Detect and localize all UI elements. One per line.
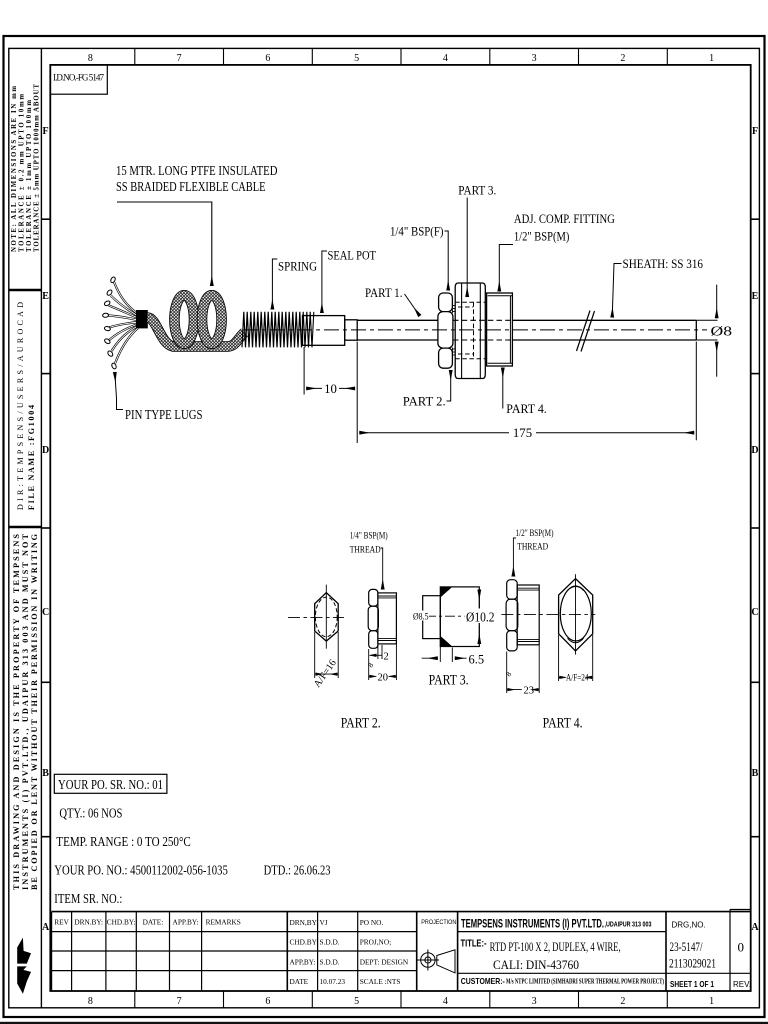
- svg-text:BE COPIED OR LENT WITHOUT THEI: BE COPIED OR LENT WITHOUT THEIR PERMISSI…: [30, 533, 39, 890]
- break marks on tube: [577, 311, 595, 352]
- svg-text:THREAD: THREAD: [517, 543, 548, 553]
- svg-text:8: 8: [88, 996, 93, 1007]
- coiled braided cable: [148, 295, 245, 346]
- left strip section dividers: [9, 290, 42, 527]
- svg-text:CUSTOMER:-: CUSTOMER:-: [461, 977, 505, 986]
- svg-text:B: B: [752, 768, 759, 779]
- property notice text (rotated): [12, 533, 39, 890]
- svg-text:2113029021: 2113029021: [669, 956, 716, 971]
- svg-text:E: E: [42, 291, 49, 302]
- svg-text:SCALE :NTS: SCALE :NTS: [360, 977, 401, 986]
- svg-text:7: 7: [177, 996, 182, 1007]
- bottom column numbers: [88, 996, 714, 1007]
- PART 4 side view threaded cylinder: [517, 585, 539, 645]
- svg-text:DRN,BY:: DRN,BY:: [290, 918, 319, 927]
- svg-text:CALI: DIN-43760: CALI: DIN-43760: [493, 957, 579, 972]
- svg-text:SEAL POT: SEAL POT: [328, 249, 377, 263]
- PART 4 side view hex facets: [506, 580, 518, 651]
- svg-text:PART 2.: PART 2.: [341, 716, 381, 732]
- svg-text:PART 4.: PART 4.: [543, 716, 583, 732]
- seal pot: [303, 316, 358, 346]
- svg-text:ITEM SR. NO.:: ITEM SR. NO.:: [54, 892, 122, 907]
- svg-text:1/4" BSP(F): 1/4" BSP(F): [390, 225, 444, 239]
- pin type lugs wires: [102, 276, 138, 369]
- svg-text:SHEET 1 OF 1: SHEET 1 OF 1: [670, 980, 714, 989]
- svg-text:YOUR PO. NO.: 4500112002-056-1: YOUR PO. NO.: 4500112002-056-1035: [54, 864, 228, 879]
- svg-text:1/2" BSP(M): 1/2" BSP(M): [516, 528, 554, 539]
- svg-text:SPRING: SPRING: [278, 260, 317, 274]
- svg-text:A: A: [42, 922, 50, 933]
- bottom column ruler ticks: [135, 991, 668, 1008]
- svg-text:PROJECTION: PROJECTION: [421, 919, 456, 926]
- PART 3 chamfer triangles: [440, 587, 452, 598]
- sign-off labels and values: [290, 918, 409, 986]
- left note strip right edge: [40, 48, 42, 1007]
- dimension 10: [304, 342, 357, 444]
- svg-text:B: B: [42, 768, 49, 779]
- PART 4 A/F=24 dimension: [559, 635, 593, 681]
- svg-text:APP,BY:: APP,BY:: [290, 957, 316, 966]
- exposed thread between nuts: [452, 303, 456, 357]
- PART 3 dia 10.2 dimension: [465, 609, 496, 624]
- svg-text:PART 1.: PART 1.: [365, 286, 403, 300]
- svg-text:DTD.: 26.06.23: DTD.: 26.06.23: [264, 864, 331, 879]
- svg-text:3: 3: [532, 996, 537, 1007]
- centerline: [243, 329, 707, 331]
- svg-text:8: 8: [88, 53, 93, 64]
- svg-text:PO NO.: PO NO.: [360, 918, 384, 927]
- bottom scan edge line: [0, 1022, 768, 1024]
- svg-text:Ø8: Ø8: [711, 324, 733, 339]
- svg-text:S.D.D.: S.D.D.: [320, 938, 340, 947]
- your po sr no box: [54, 774, 167, 793]
- svg-text:TOLERANCE ± 1mm UPTO 100mm: TOLERANCE ± 1mm UPTO 100mm: [26, 100, 33, 252]
- order info text block: [54, 778, 330, 907]
- svg-text:10.07.23: 10.07.23: [320, 977, 346, 986]
- label SEAL POT with leader: [322, 251, 327, 313]
- svg-text:A/F=24: A/F=24: [566, 673, 589, 683]
- hidden tube through fittings: [453, 320, 512, 340]
- top column numbers: [88, 53, 714, 64]
- svg-text:F: F: [43, 126, 49, 137]
- PART 2 dimension 20: [369, 645, 397, 681]
- svg-text:2: 2: [620, 53, 625, 64]
- svg-text:4: 4: [443, 53, 448, 64]
- svg-text:A: A: [751, 922, 759, 933]
- svg-text:Ø10.2: Ø10.2: [466, 611, 495, 626]
- svg-text:10: 10: [324, 382, 337, 396]
- right row letters: [751, 126, 759, 933]
- sheath tube solid lines: [357, 320, 696, 340]
- svg-text:THREAD: THREAD: [350, 546, 381, 556]
- svg-text:SHEATH: SS 316: SHEATH: SS 316: [623, 257, 704, 271]
- svg-text:2: 2: [620, 996, 625, 1007]
- spring: [242, 312, 302, 348]
- label: PIN TYPE LUGS with leader: [115, 372, 117, 399]
- union nut PART 1: [455, 283, 485, 379]
- right row ruler ticks: [751, 219, 760, 837]
- svg-text:F: F: [752, 126, 758, 137]
- svg-text:VJ: VJ: [320, 918, 328, 927]
- svg-text:PART 2.: PART 2.: [403, 395, 446, 409]
- svg-text:TOLERANCE ± 5mm UPTO 1000mm AB: TOLERANCE ± 5mm UPTO 1000mm ABOUT: [34, 84, 41, 252]
- svg-text:23: 23: [524, 686, 535, 697]
- svg-text:6: 6: [265, 53, 270, 64]
- svg-text:E: E: [752, 291, 759, 302]
- PART 3 centerline: [426, 615, 483, 617]
- svg-text:ADJ. COMP. FITTING: ADJ. COMP. FITTING: [514, 212, 615, 226]
- top column ruler ticks: [135, 48, 668, 65]
- id number box: [50, 65, 107, 94]
- svg-text:TEMPSENS INSTRUMENTS (I) PVT.L: TEMPSENS INSTRUMENTS (I) PVT.LTD.: [461, 918, 604, 931]
- PART 3 dia 8.5 label: [413, 611, 430, 621]
- dimension 175: [359, 342, 696, 441]
- svg-text:NOTE: ALL DIMENSIONS ARE IN mm: NOTE: ALL DIMENSIONS ARE IN mm: [11, 86, 18, 252]
- adj fitting body PART 4: [487, 293, 513, 366]
- svg-text:DRG,NO.: DRG,NO.: [672, 921, 706, 930]
- svg-text:23-5147/: 23-5147/: [670, 939, 703, 954]
- svg-text:DIR:TEMPSENS/USERS/AUROCAD: DIR:TEMPSENS/USERS/AUROCAD: [16, 302, 25, 510]
- svg-text:PART 4.: PART 4.: [506, 402, 547, 416]
- revision table header labels: [54, 918, 241, 927]
- svg-text:Ø8.5: Ø8.5: [413, 613, 429, 623]
- svg-text:YOUR PO. SR. NO.: 01: YOUR PO. SR. NO.: 01: [58, 778, 163, 793]
- PART 2 side view threaded cylinder: [378, 593, 397, 644]
- svg-text:DATE: DATE: [290, 977, 309, 986]
- svg-text:1/4" BSP(M): 1/4" BSP(M): [350, 531, 388, 542]
- svg-text:2: 2: [384, 652, 389, 663]
- PART 3 dimension 6.5: [422, 640, 467, 663]
- svg-text:6: 6: [265, 996, 270, 1007]
- svg-text:REV.: REV.: [733, 980, 751, 989]
- svg-text:1/2" BSP(M): 1/2" BSP(M): [514, 230, 570, 244]
- svg-text:S.D.D.: S.D.D.: [320, 957, 340, 966]
- dimension diameter 8: [696, 285, 717, 377]
- svg-text:DATE:: DATE:: [143, 918, 164, 927]
- leader for cable label: [117, 202, 212, 286]
- svg-text:PART 3.: PART 3.: [458, 184, 496, 198]
- svg-text:DRN.BY:: DRN.BY:: [74, 918, 103, 927]
- svg-text:M/s NTPC LIMITED (SIMHADRI SUP: M/s NTPC LIMITED (SIMHADRI SUPER THERMAL…: [506, 977, 664, 986]
- hidden thread lines in nut: [455, 302, 485, 359]
- hex nut assembly PART 2 (small nut): [438, 293, 453, 368]
- label: 15 MTR. LONG PTFE INSULATED SS BRAIDED FLEXIBLE CABLE: [116, 163, 278, 194]
- PART 3 ferrule body: [423, 587, 480, 647]
- label SPRING with leader: [272, 259, 277, 310]
- svg-text:5: 5: [354, 53, 359, 64]
- svg-text:3: 3: [532, 53, 537, 64]
- svg-text:QTY.: 06 NOS: QTY.: 06 NOS: [59, 807, 122, 822]
- dir file name text (rotated): [16, 302, 36, 510]
- svg-text:I.D.NO.-FG 5147: I.D.NO.-FG 5147: [53, 73, 105, 83]
- svg-text:5: 5: [354, 996, 359, 1007]
- tempsens logo arrow: [17, 938, 31, 994]
- svg-text:7: 7: [177, 53, 182, 64]
- svg-text:PIN TYPE LUGS: PIN TYPE LUGS: [125, 407, 203, 422]
- PART 4 centerline: [501, 613, 595, 615]
- svg-text:C: C: [751, 607, 758, 618]
- PART 2 front view hexagon: [288, 585, 344, 649]
- svg-text:D: D: [751, 445, 758, 456]
- svg-text:TITLE:-: TITLE:-: [461, 938, 487, 950]
- svg-text:TEMP. RANGE : 0 TO 250°C: TEMP. RANGE : 0 TO 250°C: [56, 835, 191, 850]
- svg-text:D: D: [42, 445, 49, 456]
- svg-text:,UDAIPUR 313 003: ,UDAIPUR 313 003: [605, 922, 652, 929]
- svg-text:C: C: [42, 607, 49, 618]
- svg-text:20: 20: [378, 673, 389, 684]
- svg-text:CHD.BY:: CHD.BY:: [107, 918, 136, 927]
- PART 2 side view hex facets: [368, 589, 378, 648]
- third angle projection symbol: [417, 950, 455, 973]
- svg-text:175: 175: [513, 426, 532, 440]
- PART 2 dimension 2: [377, 645, 379, 659]
- cable entry block: [136, 310, 148, 328]
- svg-text:PROJ,NO;: PROJ,NO;: [360, 938, 391, 947]
- svg-text:6.5: 6.5: [469, 653, 485, 667]
- svg-text:DEPT: DESIGN: DEPT: DESIGN: [360, 957, 409, 966]
- PART 4 dimension 23: [507, 646, 540, 694]
- svg-text:4: 4: [443, 996, 448, 1007]
- spring tail over seal pot: [302, 312, 314, 348]
- svg-text:0: 0: [738, 940, 745, 955]
- svg-text:RTD PT-100 X 2, DUPLEX, 4 WIRE: RTD PT-100 X 2, DUPLEX, 4 WIRE,: [490, 939, 621, 954]
- note tolerance text (rotated): [11, 84, 41, 252]
- svg-text:INSTRUMENTS (I) PVT.LTD., UDAI: INSTRUMENTS (I) PVT.LTD., UDAIPUR 313 00…: [21, 533, 30, 890]
- svg-text:PART 3.: PART 3.: [429, 673, 469, 689]
- svg-text:CHD.BY:: CHD.BY:: [290, 938, 319, 947]
- PART 4 front view hexagon: [559, 574, 593, 654]
- svg-text:15 MTR. LONG PTFE INSULATED: 15 MTR. LONG PTFE INSULATED: [116, 163, 278, 178]
- svg-text:TOLERANCE ± 0.2 mm UPTO 10mm: TOLERANCE ± 0.2 mm UPTO 10mm: [19, 94, 26, 252]
- svg-text:1: 1: [709, 996, 714, 1007]
- left row ruler ticks: [41, 219, 50, 837]
- title block and revision table grid: [52, 910, 751, 992]
- PART 2 A/F=16 dimension: [315, 632, 339, 678]
- svg-text:1: 1: [709, 53, 714, 64]
- svg-text:SS BRAIDED FLEXIBLE CABLE: SS BRAIDED FLEXIBLE CABLE: [116, 179, 266, 194]
- left row letters: [42, 126, 50, 933]
- svg-text:REV: REV: [54, 918, 69, 927]
- svg-text:APP.BY:: APP.BY:: [173, 918, 199, 927]
- svg-text:REMARKS: REMARKS: [206, 918, 241, 927]
